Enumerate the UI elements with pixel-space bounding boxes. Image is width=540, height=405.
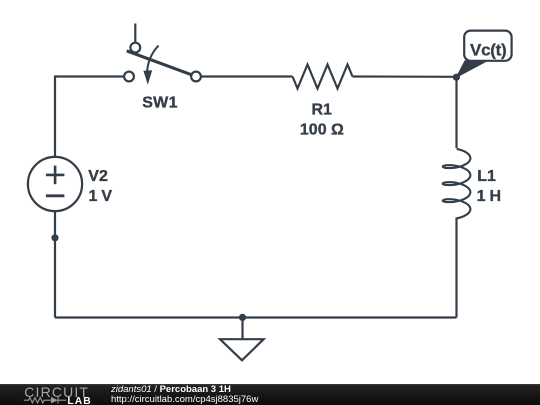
svg-text:1 V: 1 V	[89, 188, 113, 205]
svg-text:1 H: 1 H	[477, 188, 501, 205]
svg-text:http://circuitlab.com/cp4sj883: http://circuitlab.com/cp4sj8835j76w	[111, 394, 258, 405]
wire top-left from switch to left rail	[55, 77, 124, 158]
svg-text:100 Ω: 100 Ω	[300, 122, 344, 139]
node dot at Vc probe	[453, 74, 460, 81]
probe flag Vc(t) box	[464, 31, 511, 61]
svg-text:L1: L1	[477, 168, 496, 185]
junction node dot at ground	[239, 314, 246, 321]
wire switch to resistor	[201, 75, 293, 77]
wire bottom rail	[55, 316, 457, 318]
wire resistor to node	[353, 75, 457, 78]
voltage source V2	[28, 157, 82, 211]
switch SW1	[124, 24, 201, 85]
inductor L1	[443, 149, 471, 219]
svg-text:LAB: LAB	[67, 396, 91, 405]
svg-text:SW1: SW1	[142, 95, 178, 112]
probe flag Vc(t) pointer	[457, 61, 485, 77]
wire right rail upper (node to inductor)	[455, 77, 457, 148]
svg-text:Vc(t): Vc(t)	[470, 41, 506, 60]
svg-text:R1: R1	[311, 101, 332, 118]
wire left rail lower	[54, 211, 56, 318]
logo wire with resistor and diode	[24, 397, 67, 404]
footer bar	[0, 384, 540, 405]
wire right rail lower (inductor to bottom)	[455, 218, 457, 318]
svg-text:V2: V2	[88, 168, 108, 185]
resistor R1	[293, 65, 353, 89]
ground	[220, 317, 264, 360]
junction node dot below V2	[51, 234, 58, 241]
